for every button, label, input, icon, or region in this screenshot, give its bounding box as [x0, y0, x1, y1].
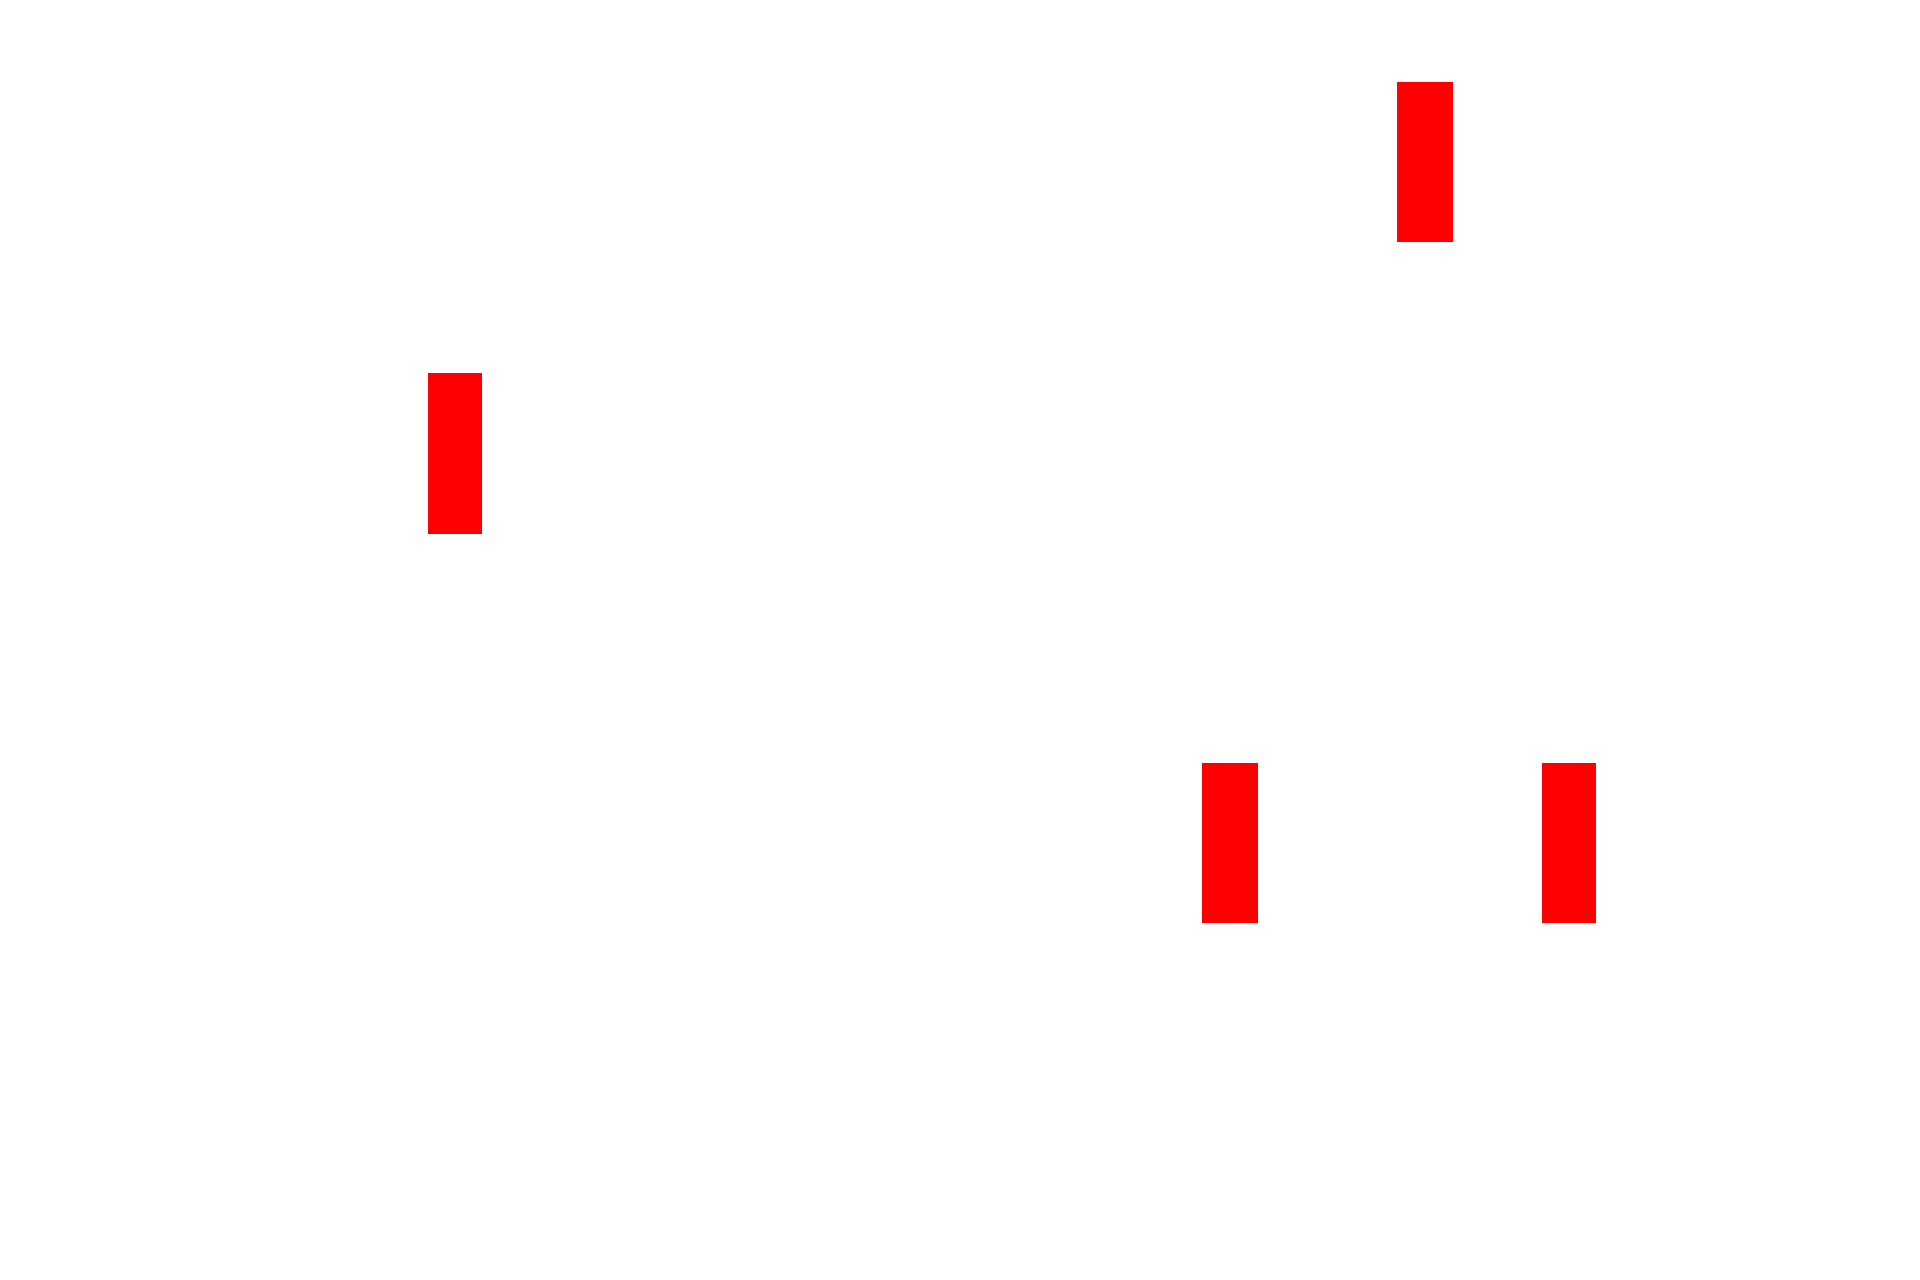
red bar 4 — [1542, 763, 1596, 923]
red bar 2 — [428, 373, 482, 534]
red bar 3 — [1202, 763, 1258, 923]
red bar 1 — [1397, 82, 1453, 242]
